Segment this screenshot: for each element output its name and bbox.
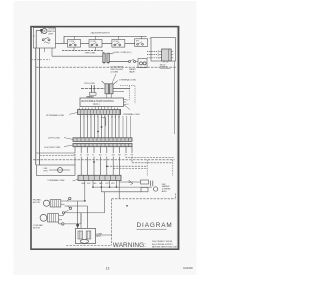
condenser fan motor M2 (40, 214, 62, 222)
heading 4 ADJUSTER SWITCH (91, 32, 110, 35)
label 10 SOCKET CONN (44, 147, 61, 149)
lamp L1 freezer light (42, 28, 47, 33)
label 6 TERMINAL CONN (48, 179, 66, 182)
left rail taps (36, 153, 75, 155)
dashed enclosure right of J2 (120, 86, 135, 104)
cabinet dashed bottom right vertical (111, 199, 113, 246)
relay blob (76, 224, 79, 227)
cond switch S8 (62, 210, 104, 214)
cabinet liner top dashed (36, 66, 176, 68)
wire loom TB1 to J3 (81, 114, 131, 137)
terminal strip TB1 18 term (78, 110, 121, 115)
drops below TB2 (85, 181, 119, 201)
leader door water switch (112, 74, 116, 83)
terminal strip TB2 6 term (78, 175, 121, 180)
label under splice (86, 96, 95, 98)
capacitor-style 2-pin splice (92, 85, 95, 93)
connector J3 10-pin (73, 138, 132, 142)
arrowheads into module (158, 50, 160, 58)
cold control box CC1 (80, 98, 124, 106)
door water switch S5 (129, 59, 139, 62)
cabinet mid dashed line (33, 159, 175, 161)
defrost labels (162, 184, 171, 193)
switch box SW1 (68, 36, 81, 50)
bend wire in loom (102, 118, 106, 126)
label COND FAN MOTOR (33, 224, 43, 229)
label DOOR WATER SWITCH (111, 66, 124, 74)
label FRZ FAN MOTOR (33, 198, 41, 203)
leader to TB1 (69, 112, 77, 114)
connector J1 4-pin (102, 52, 114, 63)
cabinet left wall rail A (35, 48, 37, 165)
cabinet left wall rail B (39, 48, 41, 165)
leader 10 socket (64, 145, 73, 147)
warning text (113, 241, 178, 249)
svg-text:GS2028: GS2028 (183, 266, 193, 270)
svg-text:13: 13 (106, 266, 110, 270)
wire drops below J4 (75, 147, 132, 153)
freezer light box (33, 28, 55, 48)
defrost box text (44, 168, 49, 172)
diagram frame (31, 27, 179, 250)
drop from light box (51, 48, 53, 56)
cabinet dashed bottom line (66, 244, 112, 246)
leader 4 terminal (124, 105, 130, 110)
light switch S0 (42, 37, 50, 43)
switch box SW3 (112, 36, 125, 47)
label 2 PIN CONN (84, 83, 95, 85)
defrost capacitor bars (151, 181, 153, 187)
label LT (33, 36, 36, 38)
defrost termination box (36, 165, 75, 175)
stubs control to J2 (107, 94, 111, 98)
junction dots on defrost bus (84, 186, 117, 202)
FRZ fan motor M1 (43, 200, 64, 207)
cabinet dashed bottom horizontal (112, 198, 176, 200)
label TERMINAL CONN (119, 78, 137, 81)
vertical feed to compressor b (87, 206, 89, 228)
wire lamp to node (36, 30, 42, 48)
J1 bottom pins (103, 62, 110, 64)
junction node mid loom (93, 161, 95, 163)
icemaker drop wire (174, 61, 176, 134)
label 18 TERMINAL CONN (46, 114, 65, 117)
part number (183, 266, 193, 270)
module bottom stubs (164, 61, 167, 63)
defrost heater circle (153, 187, 157, 191)
fan switch S7 (65, 206, 88, 210)
top bus wire (64, 35, 147, 37)
pin labels right of control (126, 100, 129, 107)
label MOLD HEATER (160, 64, 168, 68)
title underline (137, 228, 167, 230)
wire cond motor to bus (59, 213, 81, 224)
dashed corner up (175, 194, 177, 199)
wire bus links between switches (55, 36, 134, 43)
stubs above TB1 (79, 106, 117, 109)
label FRZ LIGHT (48, 29, 56, 36)
wire tag strip under TB2 (81, 182, 115, 185)
junction node on light circuit (40, 29, 43, 32)
defrost bimetal box (141, 180, 149, 184)
switch box SW2 (89, 36, 102, 50)
dashed drop mid (146, 160, 148, 176)
cond lower switch circle (62, 223, 64, 225)
connector J4 10-socket (73, 144, 132, 147)
junction node mid loom 2 (106, 166, 108, 168)
wires from J2 to right (113, 88, 130, 91)
title DIAGRAM (137, 222, 173, 229)
cold control text (81, 100, 115, 106)
wire loom J4 to TB2 (75, 157, 120, 176)
compressor box CP1 (76, 228, 96, 243)
label 4 PIN CONN (85, 52, 96, 54)
wire bus to defrost heater (93, 182, 152, 213)
wire feed to connector J1 (52, 55, 103, 57)
wire below switch row (62, 50, 104, 52)
page number (106, 266, 110, 270)
connector J2 2-socket (102, 81, 118, 94)
switch box SW4 (135, 36, 148, 46)
fan switch S6 (65, 197, 85, 201)
label 4 TERMINAL CONN (123, 113, 141, 116)
icemaker module underline (160, 68, 171, 70)
resistor block R1 (89, 93, 96, 96)
wire into splice (81, 88, 105, 90)
label WATER VALVE (129, 68, 136, 73)
water valve box (138, 59, 147, 68)
vertical feed to compressor left (77, 201, 79, 228)
control box right pins (124, 100, 126, 105)
label 10 PIN CONN (48, 138, 60, 140)
wire connector J1 to door switch (109, 61, 128, 63)
leader TB2 (73, 179, 79, 181)
short dashed stub top left (31, 59, 50, 61)
vertical feed to compressor a (80, 213, 82, 229)
icemaker enclosure (150, 38, 176, 61)
dashed wires to icemaker module (147, 51, 158, 57)
label TIMER (87, 97, 93, 99)
loom wire number ticks (80, 116, 120, 118)
leader 10 pin (64, 138, 73, 140)
icemaker module U1 (160, 49, 174, 61)
scan noise texture (29, 24, 181, 252)
defrost aux box (141, 187, 148, 191)
label COMP (96, 233, 102, 237)
junction node loom (101, 126, 103, 128)
wire blob to box (77, 226, 79, 228)
label 2 REC CONN (114, 52, 132, 54)
wire bends to right (107, 157, 175, 169)
junction node loom 2 (97, 131, 99, 133)
wire color labels row (74, 155, 134, 157)
inline connector arrows (129, 180, 133, 184)
wire comp to right dashed (95, 234, 111, 236)
asterisk node (126, 205, 128, 207)
dashed drop right wall (172, 160, 174, 176)
